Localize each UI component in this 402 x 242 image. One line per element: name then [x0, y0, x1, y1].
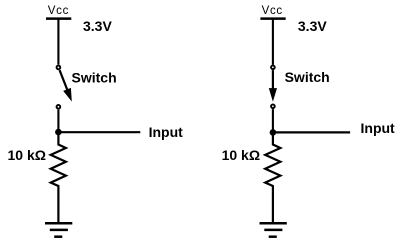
svg-text:Input: Input [361, 120, 396, 136]
svg-text:Input: Input [149, 124, 184, 140]
svg-text:Switch: Switch [285, 69, 330, 85]
svg-text:10 kΩ: 10 kΩ [8, 147, 46, 163]
svg-text:3.3V: 3.3V [298, 18, 327, 34]
svg-text:Switch: Switch [72, 69, 117, 85]
svg-text:Vcc: Vcc [262, 5, 283, 17]
svg-text:3.3V: 3.3V [83, 18, 112, 34]
svg-text:10 kΩ: 10 kΩ [222, 147, 260, 163]
svg-text:Vcc: Vcc [48, 5, 69, 17]
